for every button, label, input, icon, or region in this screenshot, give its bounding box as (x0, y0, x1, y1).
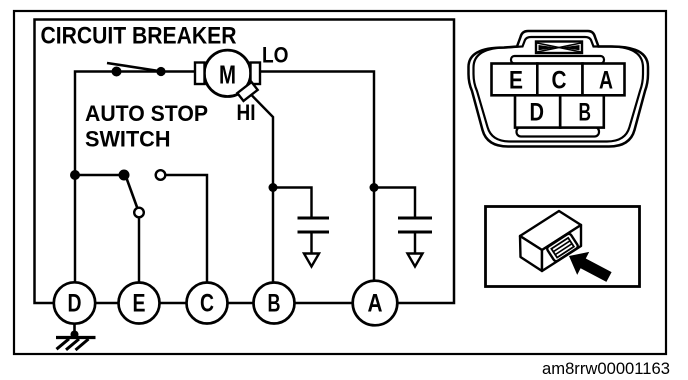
motor left brush (195, 63, 205, 85)
motor M armature circle (204, 50, 250, 96)
junction dot at A capacitor branch (370, 183, 379, 192)
wire: left vertical down to terminal D (74, 175, 76, 283)
relay module socket (546, 233, 579, 263)
connector cavity E (492, 64, 538, 96)
svg-text:M: M (219, 60, 236, 90)
motor HI brush contact (237, 82, 257, 101)
capacitor C1 plates (298, 218, 330, 232)
auto stop switch wire to moving contact (75, 174, 124, 176)
auto stop switch open contact to C (156, 170, 166, 180)
connector view inner shell (474, 37, 644, 142)
terminal B (254, 283, 295, 324)
svg-text:A: A (599, 67, 613, 95)
wire: feed from left vertical to motor left brush (75, 72, 195, 176)
relay module top face (520, 211, 581, 250)
wire: motor LO output to terminal A (260, 72, 374, 282)
svg-text:HI: HI (237, 100, 256, 125)
auto stop switch lever (125, 174, 138, 209)
auto stop switch moving contact dot (119, 170, 130, 181)
terminal D (54, 282, 95, 323)
svg-text:AUTO STOP: AUTO STOP (85, 101, 208, 126)
connector cavity D (515, 95, 560, 127)
motor right brush LO (251, 63, 261, 85)
junction dot at B capacitor branch (269, 183, 278, 192)
relay module left face (520, 236, 542, 271)
junction dot at D branch (70, 170, 80, 180)
circuit breaker contact dot left (112, 67, 122, 77)
svg-text:E: E (133, 290, 146, 318)
svg-text:C: C (200, 290, 214, 318)
svg-text:B: B (268, 290, 281, 318)
svg-text:C: C (552, 67, 567, 95)
terminal E (119, 283, 160, 324)
wire: motor HI output down to terminal B (251, 94, 274, 283)
wire: contact to terminal E (138, 218, 140, 284)
wire: branch to capacitor 2 (374, 188, 415, 218)
svg-text:LO: LO (262, 43, 289, 68)
connector top keying strip (511, 56, 604, 64)
svg-text:D: D (68, 290, 82, 318)
svg-text:D: D (530, 99, 545, 127)
terminal A (353, 281, 398, 326)
svg-text:CIRCUIT BREAKER: CIRCUIT BREAKER (41, 23, 237, 50)
auto stop switch open contact to E (134, 208, 144, 218)
capacitor C2 plates (398, 218, 432, 232)
svg-text:SWITCH: SWITCH (85, 127, 171, 152)
svg-text:B: B (579, 99, 592, 127)
circuit breaker contact dot right (156, 67, 165, 76)
ground symbol below D (56, 324, 96, 351)
wire: contact to terminal C (166, 175, 208, 283)
terminal C (187, 283, 228, 324)
wire: branch to capacitor 1 (273, 188, 312, 218)
connector bottom keying strip (517, 127, 600, 137)
pointer arrow (569, 252, 612, 282)
relay module callout box (486, 207, 640, 287)
label AUTO STOP SWITCH (85, 101, 208, 152)
circuit breaker switch lever (107, 63, 162, 72)
connector cavity C (537, 64, 582, 96)
capacitor C1 ground arrow (304, 232, 319, 267)
connector cavity B (560, 95, 604, 127)
svg-text:A: A (368, 290, 383, 318)
connector view outer shell (469, 31, 649, 147)
svg-text:am8rrw00001163: am8rrw00001163 (542, 360, 670, 378)
capacitor C2 ground arrow (408, 232, 423, 267)
connector cavity A (583, 64, 625, 96)
connector latch bowtie box (536, 42, 582, 54)
svg-text:E: E (509, 67, 523, 95)
circuit diagram box (35, 20, 455, 304)
relay module right face (542, 225, 581, 271)
